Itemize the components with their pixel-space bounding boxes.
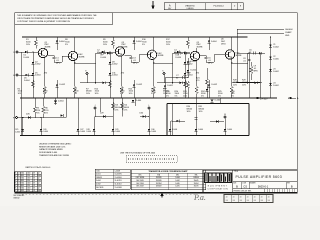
diode D18 [187, 58, 189, 78]
resistor R3 3300 [44, 58, 46, 86]
svg-text:D-664: D-664 [151, 131, 156, 133]
net arrow A [288, 97, 296, 99]
resistor R4 3300 [74, 59, 76, 86]
svg-text:D-664: D-664 [96, 180, 101, 182]
diode D7 [99, 51, 110, 53]
svg-text:D-662: D-662 [35, 64, 41, 66]
resistor R18 1500 [184, 80, 187, 88]
svg-text:EQUIPMENT: EQUIPMENT [208, 185, 228, 187]
svg-text:11-00114: 11-00114 [115, 184, 122, 186]
svg-text:DEC: DEC [122, 44, 127, 46]
svg-text:3639B: 3639B [45, 47, 51, 49]
svg-text:D-664: D-664 [215, 100, 221, 102]
svg-text:D28: D28 [87, 129, 90, 131]
svg-text:D30: D30 [151, 129, 154, 131]
svg-text:DEC: DEC [197, 44, 202, 46]
diode D21 [269, 44, 272, 47]
revision table [164, 3, 243, 10]
capacitor C1 [48, 55, 55, 57]
diode D25 [54, 101, 57, 104]
diode D31 [211, 100, 214, 103]
svg-text:J: J [95, 105, 96, 107]
svg-text:B +10V: B +10V [260, 98, 268, 100]
resistor R2 1500 [32, 80, 35, 88]
wire collector Q5 [196, 48, 198, 52]
transistor diode conversion chart [131, 170, 206, 190]
drawing number row [233, 181, 298, 183]
svg-text:DEC: DEC [158, 53, 163, 55]
svg-text:10%: 10% [103, 44, 107, 46]
wire lower coupling [157, 82, 187, 84]
svg-text:D-664: D-664 [35, 75, 41, 77]
diode D23 [269, 69, 272, 72]
diode D14 [184, 52, 186, 98]
svg-text:D-664: D-664 [211, 41, 217, 43]
resistor R9 3000 [112, 37, 114, 39]
capacitor C2 [96, 52, 102, 54]
wire coupling to stage 3 [184, 52, 186, 53]
svg-text:D-662: D-662 [273, 71, 279, 73]
svg-text:DEC: DEC [221, 41, 226, 43]
wire collector Q6 [231, 37, 233, 50]
transistor Q1 [38, 48, 47, 57]
left rail [20, 52, 22, 136]
diode D27 [60, 114, 63, 117]
test point terminal L [148, 107, 150, 109]
gate group 3 parts [171, 104, 173, 136]
svg-text:2N3639: 2N3639 [96, 177, 102, 179]
svg-text:68000: 68000 [233, 82, 239, 84]
wire collector Q4 [153, 37, 155, 50]
svg-text:D-664: D-664 [58, 101, 64, 103]
diode D9b [133, 84, 136, 87]
input terminal D [16, 51, 18, 53]
resistor R22 1.5K [206, 68, 208, 78]
wire lower coupling [232, 82, 262, 84]
+10V bus [20, 97, 277, 99]
svg-text:#110: #110 [96, 170, 100, 172]
wire lower coupling [80, 82, 110, 84]
svg-text:DEC3639: DEC3639 [96, 187, 103, 189]
svg-text:5%: 5% [142, 44, 145, 46]
gate 2 output diodes [93, 129, 96, 132]
svg-text:D-664: D-664 [59, 41, 65, 43]
diode D6 [25, 74, 28, 77]
diode D1 [22, 51, 33, 53]
diode D22 [269, 56, 272, 59]
svg-text:15-03100: 15-03100 [115, 177, 122, 179]
resistor R10 1500 [109, 80, 112, 88]
diode D24 [269, 83, 272, 86]
node base Q3 [109, 51, 111, 53]
svg-text:D-664: D-664 [227, 129, 232, 131]
date stamp box [224, 195, 273, 203]
svg-text:D-001: D-001 [96, 174, 101, 176]
svg-text:D-664: D-664 [176, 57, 182, 59]
revision arrow [152, 1, 154, 8]
diode D16 [259, 52, 262, 55]
input terminal E [16, 74, 18, 76]
svg-text:D25: D25 [15, 129, 18, 131]
svg-text:D-664: D-664 [136, 41, 142, 43]
svg-text:68000: 68000 [123, 107, 129, 109]
svg-text:5%: 5% [175, 96, 178, 98]
diode D8 [109, 52, 111, 98]
wire emitter Q4 output [154, 62, 173, 64]
svg-text:10%: 10% [187, 111, 191, 113]
diode D10 [184, 52, 187, 55]
logo digital [204, 172, 232, 183]
resistor R19 3300 [196, 61, 198, 86]
capacitor C5 [200, 55, 207, 57]
svg-text:5%: 5% [151, 93, 154, 95]
svg-text:5%: 5% [45, 112, 48, 114]
svg-text:MFD: MFD [254, 70, 259, 72]
diode D15 [208, 37, 210, 50]
resistor R21 470 [187, 81, 190, 89]
svg-text:10%: 10% [183, 96, 187, 98]
gate group 1 verticals [55, 98, 57, 105]
svg-text:5%: 5% [65, 44, 68, 46]
svg-text:D-662: D-662 [137, 84, 143, 86]
svg-text:5%: 5% [74, 93, 77, 95]
svg-text:10%: 10% [18, 93, 22, 95]
svg-text:5%: 5% [43, 93, 46, 95]
svg-text:D-664: D-664 [173, 129, 178, 131]
svg-text:3639B: 3639B [197, 47, 203, 49]
svg-text:10%: 10% [129, 93, 133, 95]
sheet area [15, 13, 298, 193]
svg-text:PULSE AMPLIFIER 5603: PULSE AMPLIFIER 5603 [236, 175, 283, 179]
svg-text:D-664: D-664 [24, 80, 30, 82]
node base Q1 [32, 51, 34, 53]
svg-text:10%: 10% [114, 109, 118, 111]
svg-text:MFD: MFD [56, 62, 61, 64]
test terminal K [163, 72, 165, 74]
capacitor C7 [170, 77, 188, 79]
wire collector Q3 [121, 47, 123, 49]
svg-text:D27: D27 [80, 129, 83, 131]
capacitor C3 [125, 55, 132, 57]
svg-text:3639B: 3639B [79, 56, 85, 58]
svg-text:11-00113: 11-00113 [115, 180, 122, 182]
svg-text:5%: 5% [166, 96, 169, 98]
node B +10V terminal [257, 97, 259, 99]
resistor R17 3000 [187, 37, 189, 39]
wire collector Q2 [74, 37, 76, 51]
svg-text:5%: 5% [120, 93, 123, 95]
svg-text:DEC: DEC [236, 53, 241, 55]
bottom border heavy line [14, 192, 297, 194]
reference designator table [95, 169, 130, 189]
resistor R11 3300 [121, 56, 123, 86]
svg-text:D-664: D-664 [15, 131, 20, 133]
svg-text:P.a.: P.a. [193, 193, 206, 202]
svg-text:D-662: D-662 [96, 184, 101, 186]
proprietary note box [15, 13, 113, 24]
svg-text:10%: 10% [123, 109, 127, 111]
svg-text:10%: 10% [233, 84, 237, 86]
svg-text:D-662: D-662 [212, 84, 218, 86]
svg-text:3639B: 3639B [122, 47, 128, 49]
wire base Q4 [131, 61, 139, 63]
svg-text:68000: 68000 [86, 91, 92, 93]
wire base Q6 [206, 61, 214, 63]
svg-text:68000: 68000 [242, 82, 248, 84]
test point terminal J [94, 107, 96, 109]
svg-text:D-664: D-664 [112, 75, 118, 77]
resistor R12 3300 [153, 58, 155, 86]
svg-text:D-664: D-664 [191, 70, 197, 72]
bottom check arrow [161, 193, 163, 198]
gate 2 right diode [140, 116, 149, 118]
svg-text:D-664: D-664 [115, 131, 120, 133]
resistor R1 3000 [35, 37, 37, 39]
svg-text:10%: 10% [242, 84, 246, 86]
gate 3 diodes [176, 120, 179, 123]
diode D5 [32, 73, 35, 76]
wire emitter Q2 output [75, 62, 96, 64]
diode D19 [187, 70, 190, 73]
svg-text:D-664: D-664 [80, 131, 85, 133]
diode D28 [132, 100, 135, 103]
wire coupling to stage 2 [109, 52, 111, 53]
gate 1 input line [15, 116, 17, 118]
transistor Q3 [115, 47, 124, 56]
svg-text:D-662: D-662 [112, 64, 118, 66]
resistor R5 [34, 106, 37, 114]
film perforation dashes [22, 193, 196, 195]
svg-text:MFD: MFD [208, 62, 213, 64]
gate 2 input line [95, 116, 113, 118]
svg-text:D-664: D-664 [87, 131, 92, 133]
diode D3 [56, 37, 58, 50]
wire collector Q1 [44, 48, 46, 49]
transistor Q5 [190, 51, 199, 60]
diode D4 [107, 52, 110, 55]
bottom ground bus [20, 135, 249, 137]
transistor Q2 [68, 51, 77, 60]
svg-text:10%: 10% [199, 111, 203, 113]
svg-text:10%: 10% [26, 44, 30, 46]
resistor R6 [42, 106, 45, 114]
svg-text:L: L [149, 105, 150, 107]
bus junction dots [44, 97, 46, 99]
parts list table [14, 172, 41, 192]
test terminal E [86, 72, 88, 74]
svg-text:D26: D26 [43, 129, 46, 131]
diode D3b [56, 84, 59, 87]
gate group 2 verticals [99, 98, 101, 112]
svg-text:5%: 5% [218, 96, 221, 98]
diode D17 [184, 73, 187, 76]
svg-text:1-2048: 1-2048 [115, 170, 120, 172]
resistor R27 470 [250, 66, 253, 74]
svg-text:GND: GND [285, 35, 290, 37]
diode D20 [164, 78, 166, 99]
wire emitter Q6 output [232, 62, 248, 64]
gate 3 output [216, 120, 219, 123]
svg-text:3639B: 3639B [236, 55, 242, 57]
svg-text:10%: 10% [166, 44, 170, 46]
diode D11 [109, 73, 112, 76]
svg-text:D-662: D-662 [167, 85, 173, 87]
svg-text:DEC: DEC [79, 54, 84, 56]
svg-text:10%: 10% [86, 93, 90, 95]
resistor R20 3300 [231, 58, 233, 86]
top -15V bus [22, 36, 248, 38]
svg-text:5%: 5% [201, 96, 204, 98]
title block frame [203, 170, 297, 193]
svg-text:D-664: D-664 [198, 129, 203, 131]
capacitor C6 [248, 52, 254, 54]
svg-text:D-664: D-664 [101, 57, 107, 59]
svg-text:DEC: DEC [45, 44, 50, 46]
svg-text:D-665: D-665 [273, 59, 279, 61]
diode D13 [174, 51, 185, 53]
transistor Q4 [147, 50, 156, 59]
svg-text:68000: 68000 [114, 107, 120, 109]
svg-text:5%: 5% [37, 112, 40, 114]
diode D9 [133, 37, 135, 50]
svg-text:D29: D29 [115, 129, 118, 131]
transistor Q6 [225, 50, 234, 59]
svg-text:68000: 68000 [199, 108, 205, 110]
svg-text:D-664: D-664 [24, 57, 30, 59]
svg-text:10%: 10% [95, 93, 99, 95]
transformer box outline [167, 103, 249, 105]
capacitor C8 [248, 58, 251, 60]
svg-text:MFD: MFD [133, 62, 138, 64]
node base Q5 [184, 51, 186, 53]
clamp diode rail [270, 37, 272, 98]
diode D15b [208, 84, 211, 87]
svg-text:D-662: D-662 [273, 85, 279, 87]
svg-text:D-662: D-662 [191, 61, 197, 63]
svg-text:15-01086: 15-01086 [115, 187, 122, 189]
clamp output wires [237, 28, 284, 30]
capacitor C4 [173, 52, 179, 54]
svg-text:D-662: D-662 [273, 47, 279, 49]
wire base Q2 [54, 61, 62, 63]
etch board outline [126, 156, 177, 163]
svg-text:3639B: 3639B [158, 55, 164, 57]
svg-text:PD-5603-4: PD-5603-4 [213, 5, 224, 7]
svg-text:5%: 5% [231, 96, 234, 98]
svg-text:D-662: D-662 [60, 84, 66, 86]
gate 1 output diodes [22, 118, 24, 136]
svg-text:D-664: D-664 [43, 131, 48, 133]
svg-text:D-664: D-664 [136, 100, 142, 102]
diode D2 [32, 52, 34, 98]
svg-text:68000: 68000 [187, 108, 193, 110]
wire clamp ladder [236, 37, 238, 82]
svg-text:10-05375: 10-05375 [115, 174, 122, 176]
